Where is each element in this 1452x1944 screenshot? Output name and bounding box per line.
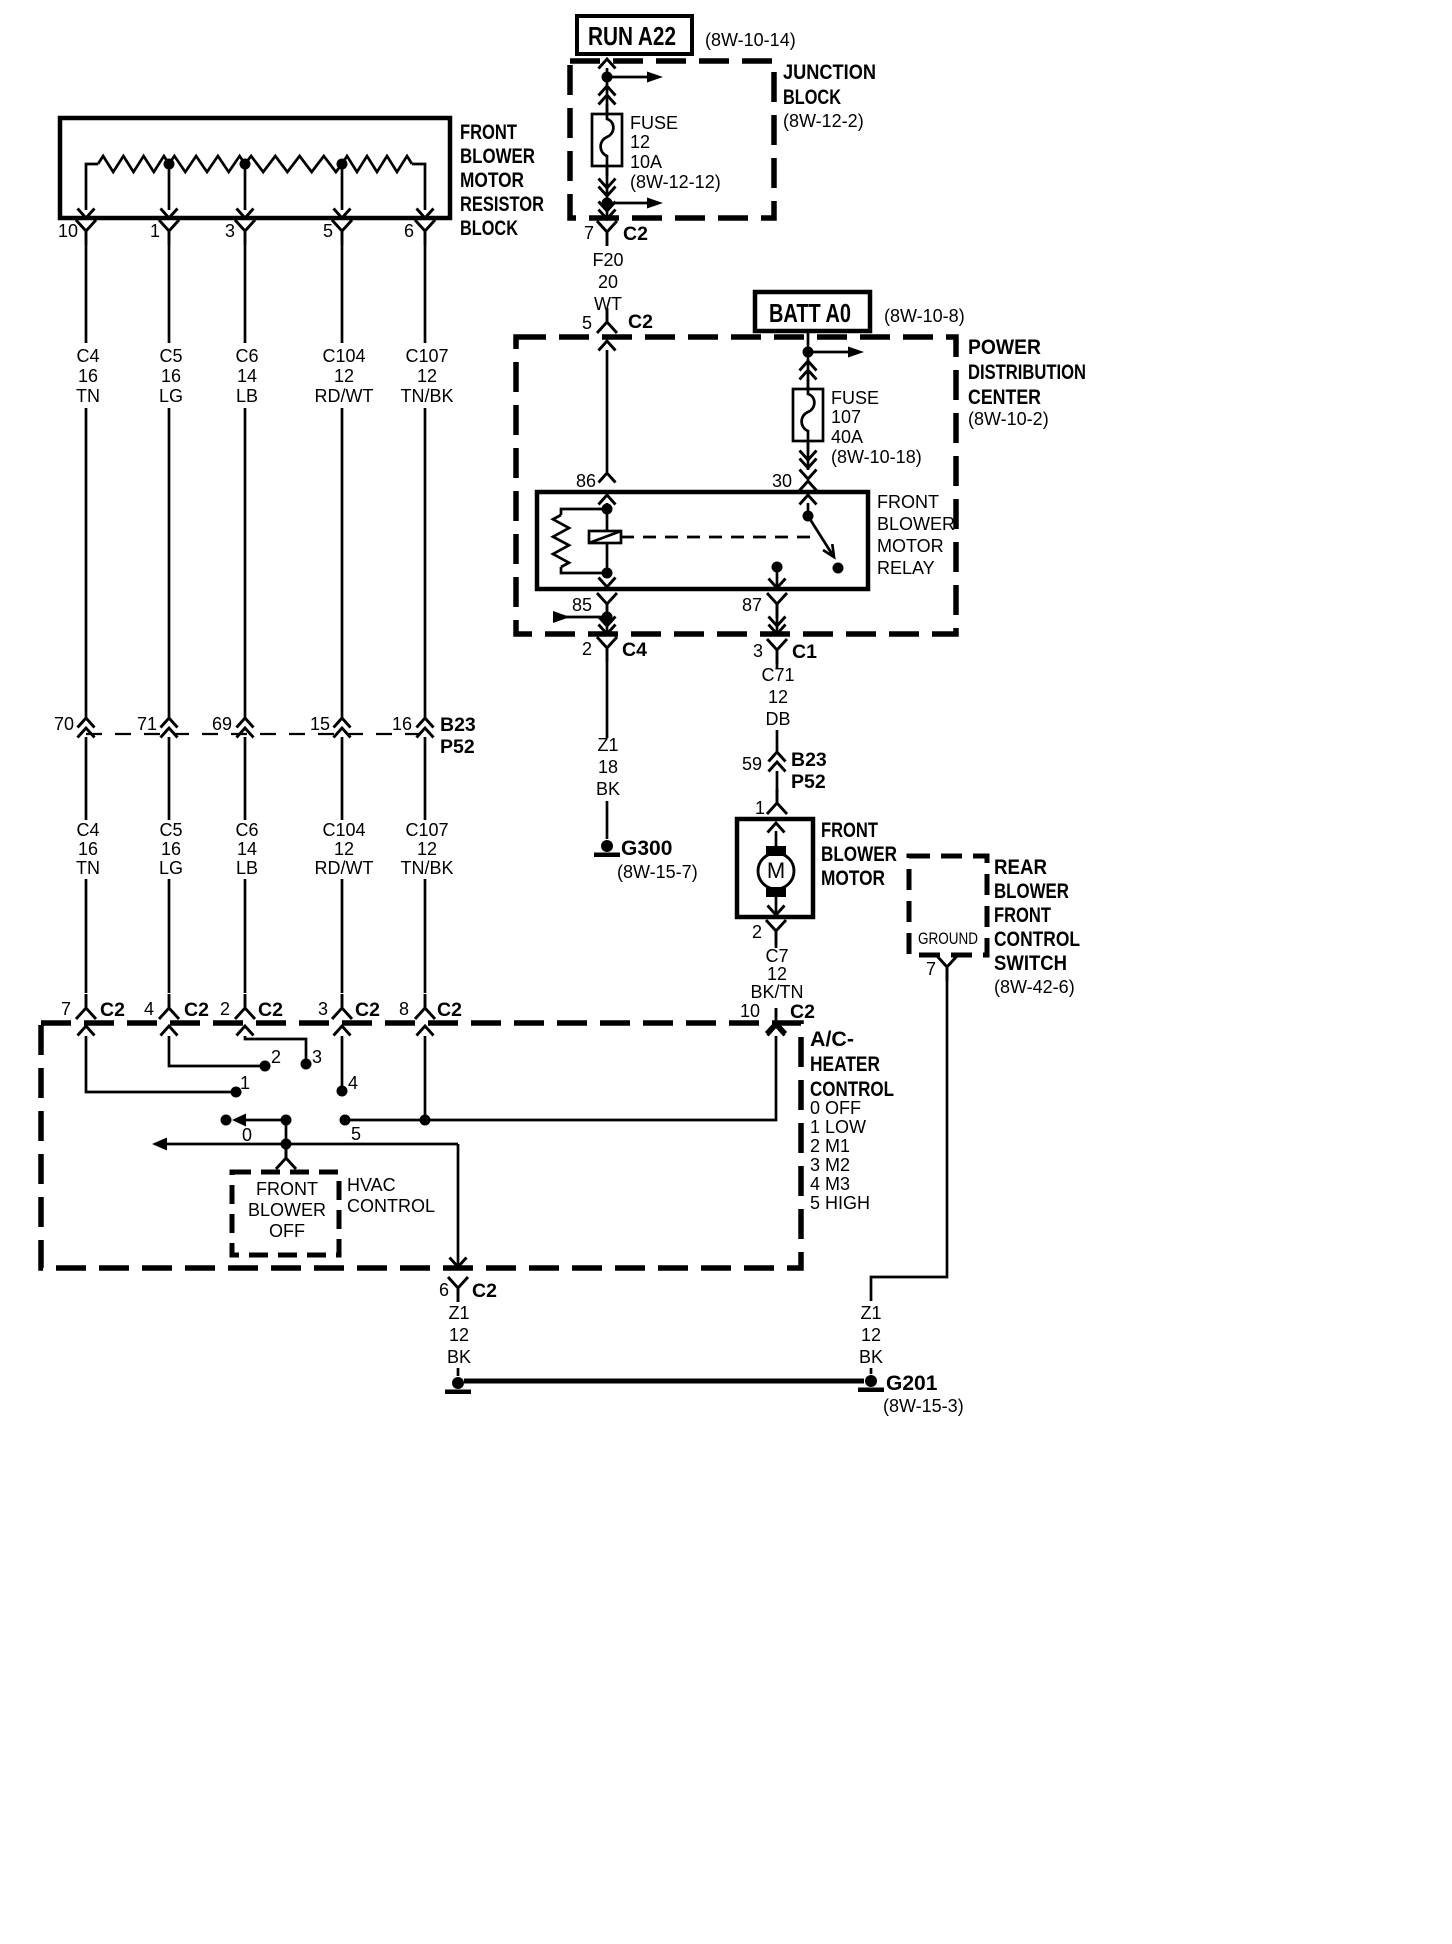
entry arrow run feed into PDC [599, 341, 616, 351]
svg-text:15: 15 [310, 714, 330, 734]
relay coil branch bottom [561, 567, 607, 573]
wire C104 bottom segment [341, 879, 344, 993]
relay coil bottom node [602, 568, 613, 579]
inline connector pin 70 [78, 718, 95, 728]
svg-text:LG: LG [159, 858, 183, 878]
motor feed wire [775, 831, 778, 847]
junction node at tap 1 [164, 159, 175, 170]
rear switch pin 7 connector [937, 956, 957, 981]
svg-text:0: 0 [242, 1125, 252, 1145]
connector pin 2 C4 [597, 637, 617, 662]
relay coil branch top [561, 509, 607, 515]
wire C4 lower segment [85, 737, 88, 820]
svg-text:C107: C107 [405, 346, 448, 366]
svg-text:C4: C4 [76, 820, 99, 840]
motor pin 2 connector [766, 920, 786, 945]
label HVAC CONTROL [347, 1175, 435, 1216]
fuse F107 [793, 379, 823, 451]
connector pin 10 [76, 220, 96, 245]
wire C4 bottom segment [85, 879, 88, 993]
svg-text:B23: B23 [791, 749, 827, 771]
connector pin 8 C2 [415, 994, 435, 1019]
svg-text:16: 16 [161, 366, 181, 386]
relay switch throw node [833, 563, 844, 574]
relay actuator dashed link [621, 536, 816, 539]
relay pin 85 connector [597, 593, 617, 618]
svg-text:G201: G201 [886, 1372, 938, 1395]
connector pin 5 [332, 220, 352, 245]
svg-text:C2: C2 [790, 1001, 815, 1023]
value label C6 14 LB [235, 346, 258, 406]
value label F20 20 WT [592, 250, 623, 314]
svg-text:7: 7 [61, 999, 71, 1019]
svg-text:HVAC: HVAC [347, 1175, 396, 1195]
svg-text:14: 14 [237, 366, 257, 386]
svg-text:2: 2 [752, 922, 762, 942]
svg-text:12: 12 [417, 366, 437, 386]
svg-text:F20: F20 [592, 250, 623, 270]
wire to contact 3 [245, 1036, 306, 1060]
connector pin 6 C2 [448, 1277, 468, 1302]
wire below fuse 107 [807, 441, 810, 470]
wire feed down to pin 6 [457, 1144, 460, 1266]
svg-text:Z1: Z1 [597, 735, 618, 755]
svg-text:BLOWER: BLOWER [248, 1200, 326, 1220]
svg-text:BK: BK [859, 1347, 883, 1367]
wire tap 5 riser [341, 164, 344, 210]
contact node 1 [231, 1087, 242, 1098]
connector pin 10 C2 [766, 1008, 786, 1033]
label REAR BLOWER FRONT CONTROL SWITCH (8W-42-6) [994, 856, 1080, 975]
motor M1 body [758, 853, 794, 889]
connector pin 1 [159, 220, 179, 245]
svg-text:69: 69 [212, 714, 232, 734]
svg-text:B23: B23 [440, 714, 476, 736]
wire C5 mid segment [168, 408, 171, 719]
svg-text:16: 16 [78, 839, 98, 859]
resistor R4 [342, 156, 412, 172]
relay common node [772, 562, 783, 573]
svg-text:TN: TN [76, 858, 100, 878]
svg-text:RD/WT: RD/WT [315, 858, 374, 878]
svg-text:TN: TN [76, 386, 100, 406]
inline connector pin 15 [334, 718, 351, 728]
exit arrow at box bottom [450, 1258, 467, 1268]
A/C-heater control dashed box [41, 1023, 801, 1268]
svg-text:2: 2 [582, 639, 592, 659]
contact node 5 [340, 1115, 351, 1126]
inline connector B23 P52 dashed tie line [86, 733, 425, 735]
motor return wire with arrow [775, 897, 778, 914]
svg-text:BLOWER: BLOWER [877, 514, 955, 534]
svg-text:12: 12 [861, 1325, 881, 1345]
svg-text:70: 70 [54, 714, 74, 734]
front blower motor box [737, 819, 813, 917]
svg-text:DB: DB [765, 709, 790, 729]
svg-text:C6: C6 [235, 346, 258, 366]
pin 85 exit chevrons at PDC bottom [606, 617, 609, 632]
value label C104 12 RD/WT [315, 346, 374, 406]
svg-text:16: 16 [161, 839, 181, 859]
wire C107 drop inside box [424, 1036, 427, 1120]
svg-text:TN/BK: TN/BK [400, 858, 453, 878]
connector to front blower off [276, 1144, 296, 1169]
svg-text:C4: C4 [76, 346, 99, 366]
svg-text:BLOWER: BLOWER [460, 145, 535, 168]
node batt with offpage arrow [803, 347, 814, 358]
relay coil top node [602, 504, 613, 515]
wire C6 bottom segment [244, 879, 247, 993]
svg-text:2: 2 [271, 1047, 281, 1067]
feed arrow into junction block [599, 59, 616, 69]
svg-text:12: 12 [767, 964, 787, 984]
label FRONT BLOWER OFF [248, 1179, 326, 1241]
wire C71 [776, 664, 779, 668]
wire riser right to pin 6 [412, 164, 425, 210]
label B23 P52 [440, 714, 476, 758]
svg-text:(8W-15-3): (8W-15-3) [883, 1396, 964, 1416]
relay pin 86 chevron [599, 473, 616, 483]
label POWER DISTRIBUTION CENTER (8W-10-2) [968, 336, 1086, 429]
pin 85 node with offpage arrow [602, 612, 613, 623]
wire to contact 4 [341, 1036, 344, 1087]
svg-text:C6: C6 [235, 820, 258, 840]
wire tap 1 riser [168, 164, 171, 210]
svg-text:(8W-10-2): (8W-10-2) [968, 409, 1049, 429]
svg-text:7: 7 [584, 223, 594, 243]
value label C71 12 DB [761, 665, 794, 729]
label A/C-HEATER CONTROL [810, 1028, 894, 1101]
wire C6 upper segment [244, 245, 247, 343]
svg-text:C2: C2 [628, 311, 653, 333]
wire C5 upper segment [168, 245, 171, 343]
wire to contact 2 [169, 1036, 260, 1066]
connector pin 3 C1 [767, 639, 787, 664]
rear blower front control switch dashed box [909, 856, 987, 955]
svg-text:SWITCH: SWITCH [994, 952, 1067, 975]
value label C4 16 TN lower [76, 820, 100, 878]
label FRONT BLOWER MOTOR RESISTOR BLOCK [460, 121, 544, 240]
svg-text:HEATER: HEATER [810, 1053, 880, 1076]
svg-text:DISTRIBUTION: DISTRIBUTION [968, 361, 1086, 384]
svg-text:7: 7 [926, 959, 936, 979]
svg-text:1 LOW: 1 LOW [810, 1117, 866, 1137]
entry arrow pin2 inside box [237, 1026, 254, 1036]
entry arrow pin7 inside box [78, 1026, 95, 1036]
wire to contact 1 [86, 1036, 232, 1092]
svg-text:FUSE: FUSE [831, 388, 879, 408]
svg-text:12: 12 [768, 687, 788, 707]
svg-text:LB: LB [236, 858, 258, 878]
svg-text:P52: P52 [440, 736, 475, 758]
inline connector pin 16 [417, 718, 434, 728]
RUN A22 node box [577, 16, 692, 54]
svg-text:POWER: POWER [968, 336, 1041, 359]
wire stub above G201 left [457, 1368, 460, 1376]
svg-text:BLOWER: BLOWER [821, 843, 897, 866]
label JUNCTION BLOCK (8W-12-2) [783, 61, 876, 131]
wire C104 upper segment [341, 245, 344, 343]
svg-text:TN/BK: TN/BK [400, 386, 453, 406]
wire riser left of resistor chain [86, 164, 98, 210]
value label C5 16 LG lower [159, 820, 183, 878]
svg-text:(8W-12-2): (8W-12-2) [783, 111, 864, 131]
svg-text:FRONT: FRONT [994, 904, 1051, 927]
svg-text:(8W-10-18): (8W-10-18) [831, 447, 922, 467]
svg-text:C2: C2 [184, 999, 209, 1021]
value label C7 12 BK/TN [750, 946, 803, 1002]
entry arrow pin3 inside box [334, 1026, 351, 1036]
wire C6 mid segment [244, 408, 247, 719]
svg-text:30: 30 [772, 471, 792, 491]
svg-text:14: 14 [237, 839, 257, 859]
motor brush top [766, 846, 786, 856]
resistor R1 [98, 156, 169, 172]
svg-text:FRONT: FRONT [877, 492, 939, 512]
exit chevrons at junction block bottom [606, 203, 609, 217]
junction block dashed box [570, 61, 774, 218]
svg-text:4 M3: 4 M3 [810, 1174, 850, 1194]
svg-text:6: 6 [404, 221, 414, 241]
relay actuator symbol [589, 531, 621, 543]
contact node 3 [301, 1059, 312, 1070]
svg-text:GROUND: GROUND [918, 929, 978, 948]
svg-text:4: 4 [348, 1073, 358, 1093]
wire C4 upper segment [85, 245, 88, 343]
svg-text:MOTOR: MOTOR [821, 867, 885, 890]
wire C6 lower segment [244, 737, 247, 820]
svg-text:10: 10 [740, 1001, 760, 1021]
svg-text:M: M [767, 858, 785, 883]
pin arrow 5 at block edge [334, 209, 351, 219]
wire wiper to hvac control [285, 1144, 288, 1158]
connector pin 4 C2 [159, 994, 179, 1019]
connector pin 5 C2 above PDC [597, 308, 617, 333]
contact node 0 [221, 1115, 232, 1126]
svg-text:Z1: Z1 [860, 1303, 881, 1323]
svg-text:C2: C2 [355, 999, 380, 1021]
node B1 with offpage arrow [602, 72, 613, 83]
wire run feed to relay coil [606, 350, 609, 472]
wire C107 mid segment [424, 408, 427, 719]
wiper junction node [281, 1115, 292, 1126]
svg-text:20: 20 [598, 272, 618, 292]
svg-text:1: 1 [755, 798, 765, 818]
svg-text:C5: C5 [159, 820, 182, 840]
wire below fuse 12 [606, 166, 609, 203]
fuse F12 [592, 104, 622, 176]
svg-text:CONTROL: CONTROL [347, 1196, 435, 1216]
value label C104 12 RD/WT lower [315, 820, 374, 878]
wire C107 upper segment [424, 245, 427, 343]
motor pin 1 chevron [767, 789, 787, 814]
svg-text:5: 5 [351, 1124, 361, 1144]
svg-text:BK: BK [596, 779, 620, 799]
wire run feed [606, 68, 609, 114]
value label C107 12 TN/BK [400, 346, 453, 406]
wiper arrow to position 0 [232, 1114, 246, 1127]
svg-text:FRONT: FRONT [256, 1179, 318, 1199]
contact node 2 [260, 1061, 271, 1072]
svg-text:3: 3 [312, 1047, 322, 1067]
svg-text:59: 59 [742, 754, 762, 774]
svg-text:C2: C2 [437, 999, 462, 1021]
svg-text:C104: C104 [322, 346, 365, 366]
relay common wire [776, 567, 779, 588]
svg-text:3 M2: 3 M2 [810, 1155, 850, 1175]
ground G300 [594, 840, 620, 857]
value label Z1 18 BK [596, 735, 620, 799]
svg-text:(8W-42-6): (8W-42-6) [994, 977, 1075, 997]
wire C104 lower segment [341, 737, 344, 820]
label FRONT BLOWER MOTOR RELAY [877, 492, 955, 578]
svg-text:BATT A0: BATT A0 [769, 298, 851, 328]
relay coil exit chevron [599, 578, 616, 588]
svg-text:JUNCTION: JUNCTION [783, 61, 876, 84]
relay switch input wire [807, 503, 810, 515]
svg-text:LG: LG [159, 386, 183, 406]
front blower motor resistor block outline [60, 118, 450, 218]
wire C5 bottom segment [168, 879, 171, 993]
connector pin 2 C2 [235, 994, 255, 1019]
svg-text:3: 3 [753, 641, 763, 661]
front blower off dashed box [232, 1172, 339, 1255]
value label C4 16 TN [76, 346, 100, 406]
svg-text:40A: 40A [831, 427, 863, 447]
svg-text:C2: C2 [258, 999, 283, 1021]
svg-text:5 HIGH: 5 HIGH [810, 1193, 870, 1213]
power distribution center dashed box [516, 337, 956, 634]
pin arrow 6 at block edge [417, 209, 434, 219]
motor entry chevron [768, 823, 785, 833]
entry arrow pin 10 inside box [768, 1026, 785, 1036]
relay switch pivot node [803, 511, 814, 522]
svg-text:(8W-12-12): (8W-12-12) [630, 172, 721, 192]
svg-text:RESISTOR: RESISTOR [460, 193, 544, 216]
wiper common node [281, 1139, 292, 1150]
svg-text:CENTER: CENTER [968, 386, 1041, 409]
svg-text:LB: LB [236, 386, 258, 406]
svg-text:Z1: Z1 [448, 1303, 469, 1323]
svg-text:C5: C5 [159, 346, 182, 366]
wire tap 3 riser [244, 164, 247, 210]
junction node at tap 5 [337, 159, 348, 170]
svg-text:C2: C2 [100, 999, 125, 1021]
svg-text:BK: BK [447, 1347, 471, 1367]
svg-text:(8W-10-8): (8W-10-8) [884, 306, 965, 326]
svg-text:12: 12 [449, 1325, 469, 1345]
svg-text:12: 12 [334, 366, 354, 386]
contact node 4 [337, 1086, 348, 1097]
svg-text:107: 107 [831, 407, 861, 427]
inline connector pin 69 [237, 718, 254, 728]
relay pin 30 entry chevron inside [800, 495, 817, 505]
wire Z1 lower [606, 801, 609, 839]
svg-text:2: 2 [220, 999, 230, 1019]
relay pin 87 exit chevron [769, 579, 786, 589]
svg-text:6: 6 [439, 1280, 449, 1300]
svg-text:RUN A22: RUN A22 [588, 21, 676, 51]
wire C107 lower segment [424, 737, 427, 820]
svg-text:BLOCK: BLOCK [783, 86, 841, 109]
svg-text:OFF: OFF [269, 1221, 305, 1241]
wire rear switch ground run [871, 967, 947, 1301]
value label C107 12 TN/BK lower [400, 820, 453, 878]
connector pin 3 [235, 220, 255, 245]
svg-text:12: 12 [334, 839, 354, 859]
svg-text:12: 12 [630, 132, 650, 152]
svg-text:CONTROL: CONTROL [994, 928, 1080, 951]
connector pin 3 C2 [332, 994, 352, 1019]
svg-text:5: 5 [323, 221, 333, 241]
svg-text:85: 85 [572, 595, 592, 615]
splice chevrons below fuse 107 [800, 451, 817, 461]
svg-text:A/C-: A/C- [810, 1028, 854, 1051]
wire C5 lower segment [168, 737, 171, 820]
connector pin 7 C2 [76, 994, 96, 1019]
svg-text:87: 87 [742, 595, 762, 615]
value label C6 14 LB lower [235, 820, 258, 878]
entry arrow pin4 inside box [161, 1026, 178, 1036]
motor pin2 wire [775, 945, 778, 948]
svg-text:1: 1 [150, 221, 160, 241]
entry arrow pin8 inside box [417, 1026, 434, 1036]
svg-text:3: 3 [225, 221, 235, 241]
wire high-speed net to pin 10 [345, 1036, 776, 1120]
svg-text:C2: C2 [472, 1280, 497, 1302]
junction node at tap 3 [240, 159, 251, 170]
svg-text:5: 5 [582, 313, 592, 333]
connector pin 6 [415, 220, 435, 245]
svg-text:C2: C2 [623, 223, 648, 245]
inline splice chevrons above fuse 12 [599, 86, 616, 96]
label FUSE 12 10A (8W-12-12) [630, 113, 721, 192]
ground G201 left symbol [445, 1377, 471, 1394]
svg-text:FRONT: FRONT [821, 819, 878, 842]
wiper feed wire with off-page arrow [152, 1138, 167, 1151]
splice chevrons above fuse 107 [800, 361, 817, 371]
value label C5 16 LG [159, 346, 183, 406]
wire to motor pin 1 [776, 771, 779, 794]
node B2 with offpage arrow [602, 198, 613, 209]
pin arrow 1 at block edge [161, 209, 178, 219]
svg-text:C4: C4 [622, 639, 647, 661]
BATT A0 node box [755, 292, 870, 331]
wiper stem wire [285, 1120, 288, 1144]
wire stub above G201 right [870, 1368, 873, 1374]
pin arrow 3 at block edge [237, 209, 254, 219]
wire Z1 to G300 [606, 662, 609, 738]
svg-text:86: 86 [576, 471, 596, 491]
ground bus G201 [464, 1379, 864, 1384]
value label Z1 12 BK [447, 1303, 471, 1367]
svg-text:BLOWER: BLOWER [994, 880, 1069, 903]
svg-text:16: 16 [78, 366, 98, 386]
relay pin 30 connector [800, 470, 817, 480]
splice chevrons below fuse 12 [599, 179, 616, 189]
wire C107 bottom segment [424, 879, 427, 993]
svg-text:10: 10 [58, 221, 78, 241]
svg-text:C1: C1 [792, 641, 817, 663]
relay pin 87 connector [767, 593, 787, 618]
svg-text:3: 3 [318, 999, 328, 1019]
junction of C107 wire on high-speed net [420, 1115, 431, 1126]
inline connector pin 71 [161, 718, 178, 728]
value label Z1 12 BK right [859, 1303, 883, 1367]
wire batt feed [807, 331, 810, 389]
label FRONT BLOWER MOTOR [821, 819, 897, 890]
relay coil wire [606, 503, 609, 573]
